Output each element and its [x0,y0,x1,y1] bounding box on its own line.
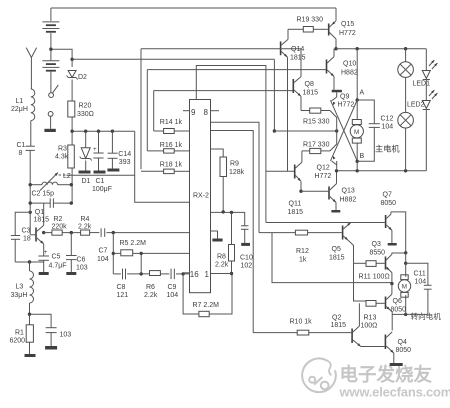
svg-text:R1: R1 [15,330,24,337]
svg-text:1815: 1815 [288,209,304,216]
svg-text:R20: R20 [79,103,92,110]
svg-text:Q2: Q2 [332,315,341,322]
svg-text:R2: R2 [54,216,63,223]
svg-text:102: 102 [241,263,253,270]
svg-text:C1: C1 [96,178,105,185]
svg-text:Q6: Q6 [393,298,402,305]
svg-text:R5 2.2M: R5 2.2M [120,240,147,247]
svg-text:C7: C7 [99,248,108,255]
svg-text:2.2k: 2.2k [78,223,92,230]
svg-text:R6: R6 [146,284,155,291]
svg-text:电子发烧友: 电子发烧友 [340,364,433,385]
svg-text:Q7: Q7 [383,192,392,199]
svg-text:www.elecfans.com: www.elecfans.com [339,384,450,399]
svg-text:8050: 8050 [381,200,397,207]
svg-text:D2: D2 [78,74,87,81]
svg-text:103: 103 [76,265,88,272]
svg-text:8: 8 [19,150,23,157]
svg-text:R7 2.2M: R7 2.2M [193,302,220,309]
svg-text:128k: 128k [229,169,245,176]
svg-text:B: B [360,153,365,160]
svg-text:8550: 8550 [370,250,386,257]
svg-text:Q10: Q10 [343,61,356,68]
svg-text:220k: 220k [52,223,68,230]
svg-text:C10: C10 [240,255,253,262]
svg-text:L1: L1 [16,98,24,105]
svg-text:R16 1k: R16 1k [160,142,183,149]
svg-text:1: 1 [205,270,210,279]
svg-text:R3: R3 [58,146,67,153]
svg-text:1k: 1k [299,257,307,264]
svg-text:1815: 1815 [290,55,306,62]
svg-text:8050: 8050 [391,307,407,314]
svg-text:Q11: Q11 [289,201,302,208]
svg-text:393: 393 [119,159,131,166]
svg-text:8: 8 [204,108,209,117]
svg-text:C8: C8 [117,284,126,291]
svg-text:M: M [354,129,359,136]
svg-text:L3: L3 [16,284,24,291]
svg-text:121: 121 [117,292,129,299]
svg-text:Q8: Q8 [305,81,314,88]
svg-text:H882: H882 [340,197,357,204]
svg-text:+: + [93,146,97,153]
svg-text:H772: H772 [315,173,332,180]
svg-text:C1: C1 [17,142,26,149]
svg-text:104: 104 [382,124,394,131]
svg-text:103: 103 [60,332,72,339]
svg-text:H772: H772 [338,102,355,109]
svg-text:H882: H882 [341,70,358,77]
svg-text:C14: C14 [118,151,131,158]
svg-text:R8: R8 [217,254,226,261]
svg-text:C9: C9 [168,284,177,291]
svg-text:主电机: 主电机 [375,144,400,154]
svg-text:R4: R4 [81,216,90,223]
svg-text:R11 100Ω: R11 100Ω [359,274,390,281]
svg-text:9: 9 [191,108,196,117]
svg-text:R10 1k: R10 1k [290,319,313,326]
svg-text:Q15: Q15 [341,21,354,28]
svg-text:2.2k: 2.2k [144,292,158,299]
svg-text:4.7μF: 4.7μF [49,263,67,270]
svg-text:C3: C3 [22,228,31,235]
svg-text:+: + [44,249,48,256]
svg-text:104: 104 [415,279,427,286]
svg-text:16: 16 [190,270,199,279]
svg-text:C6: C6 [77,257,86,264]
svg-text:C5: C5 [52,254,61,261]
svg-text:M: M [402,284,407,291]
svg-text:1815: 1815 [34,217,50,224]
svg-text:1815: 1815 [303,90,319,97]
svg-text:H772: H772 [339,30,356,37]
svg-text:R9: R9 [230,161,239,168]
svg-text:R18 1k: R18 1k [160,162,183,169]
svg-text:R12: R12 [296,248,309,255]
svg-text:Q9: Q9 [340,94,349,101]
svg-text:Q12: Q12 [317,165,330,172]
svg-text:33μH: 33μH [11,292,28,299]
svg-text:22μH: 22μH [11,106,28,113]
svg-text:Q13: Q13 [342,188,355,195]
svg-text:R13: R13 [364,315,377,322]
svg-text:18: 18 [23,236,31,243]
svg-text:1815: 1815 [331,322,347,329]
svg-text:L2: L2 [63,173,71,180]
svg-text:100μF: 100μF [92,186,112,193]
svg-text:1815: 1815 [329,255,345,262]
svg-text:LED2: LED2 [407,102,425,109]
svg-text:A: A [360,90,365,97]
svg-text:R15 330: R15 330 [303,119,330,126]
svg-text:104: 104 [167,292,179,299]
svg-text:Q4: Q4 [398,339,407,346]
svg-text:R14 1k: R14 1k [160,119,183,126]
svg-text:C12: C12 [381,116,394,123]
svg-text:LED1: LED1 [413,81,431,88]
svg-text:Q14: Q14 [291,46,304,53]
svg-text:R19 330: R19 330 [297,17,324,24]
svg-text:Q1: Q1 [35,209,44,216]
svg-text:Q5: Q5 [332,246,341,253]
svg-text:330Ω: 330Ω [77,111,94,118]
svg-text:R17 330: R17 330 [303,142,330,149]
svg-text:8050: 8050 [396,347,412,354]
svg-text:104: 104 [97,256,109,263]
svg-text:4.3k: 4.3k [55,154,69,161]
svg-text:6200: 6200 [10,338,26,345]
svg-text:Q3: Q3 [372,241,381,248]
svg-text:RX-2: RX-2 [193,193,209,200]
svg-text:转向电机: 转向电机 [411,311,442,321]
svg-text:2.2k: 2.2k [215,262,229,269]
svg-text:D1: D1 [82,178,91,185]
svg-text:C11: C11 [414,271,426,278]
svg-text:100Ω: 100Ω [361,323,378,330]
svg-text:C2 15p: C2 15p [32,190,55,197]
